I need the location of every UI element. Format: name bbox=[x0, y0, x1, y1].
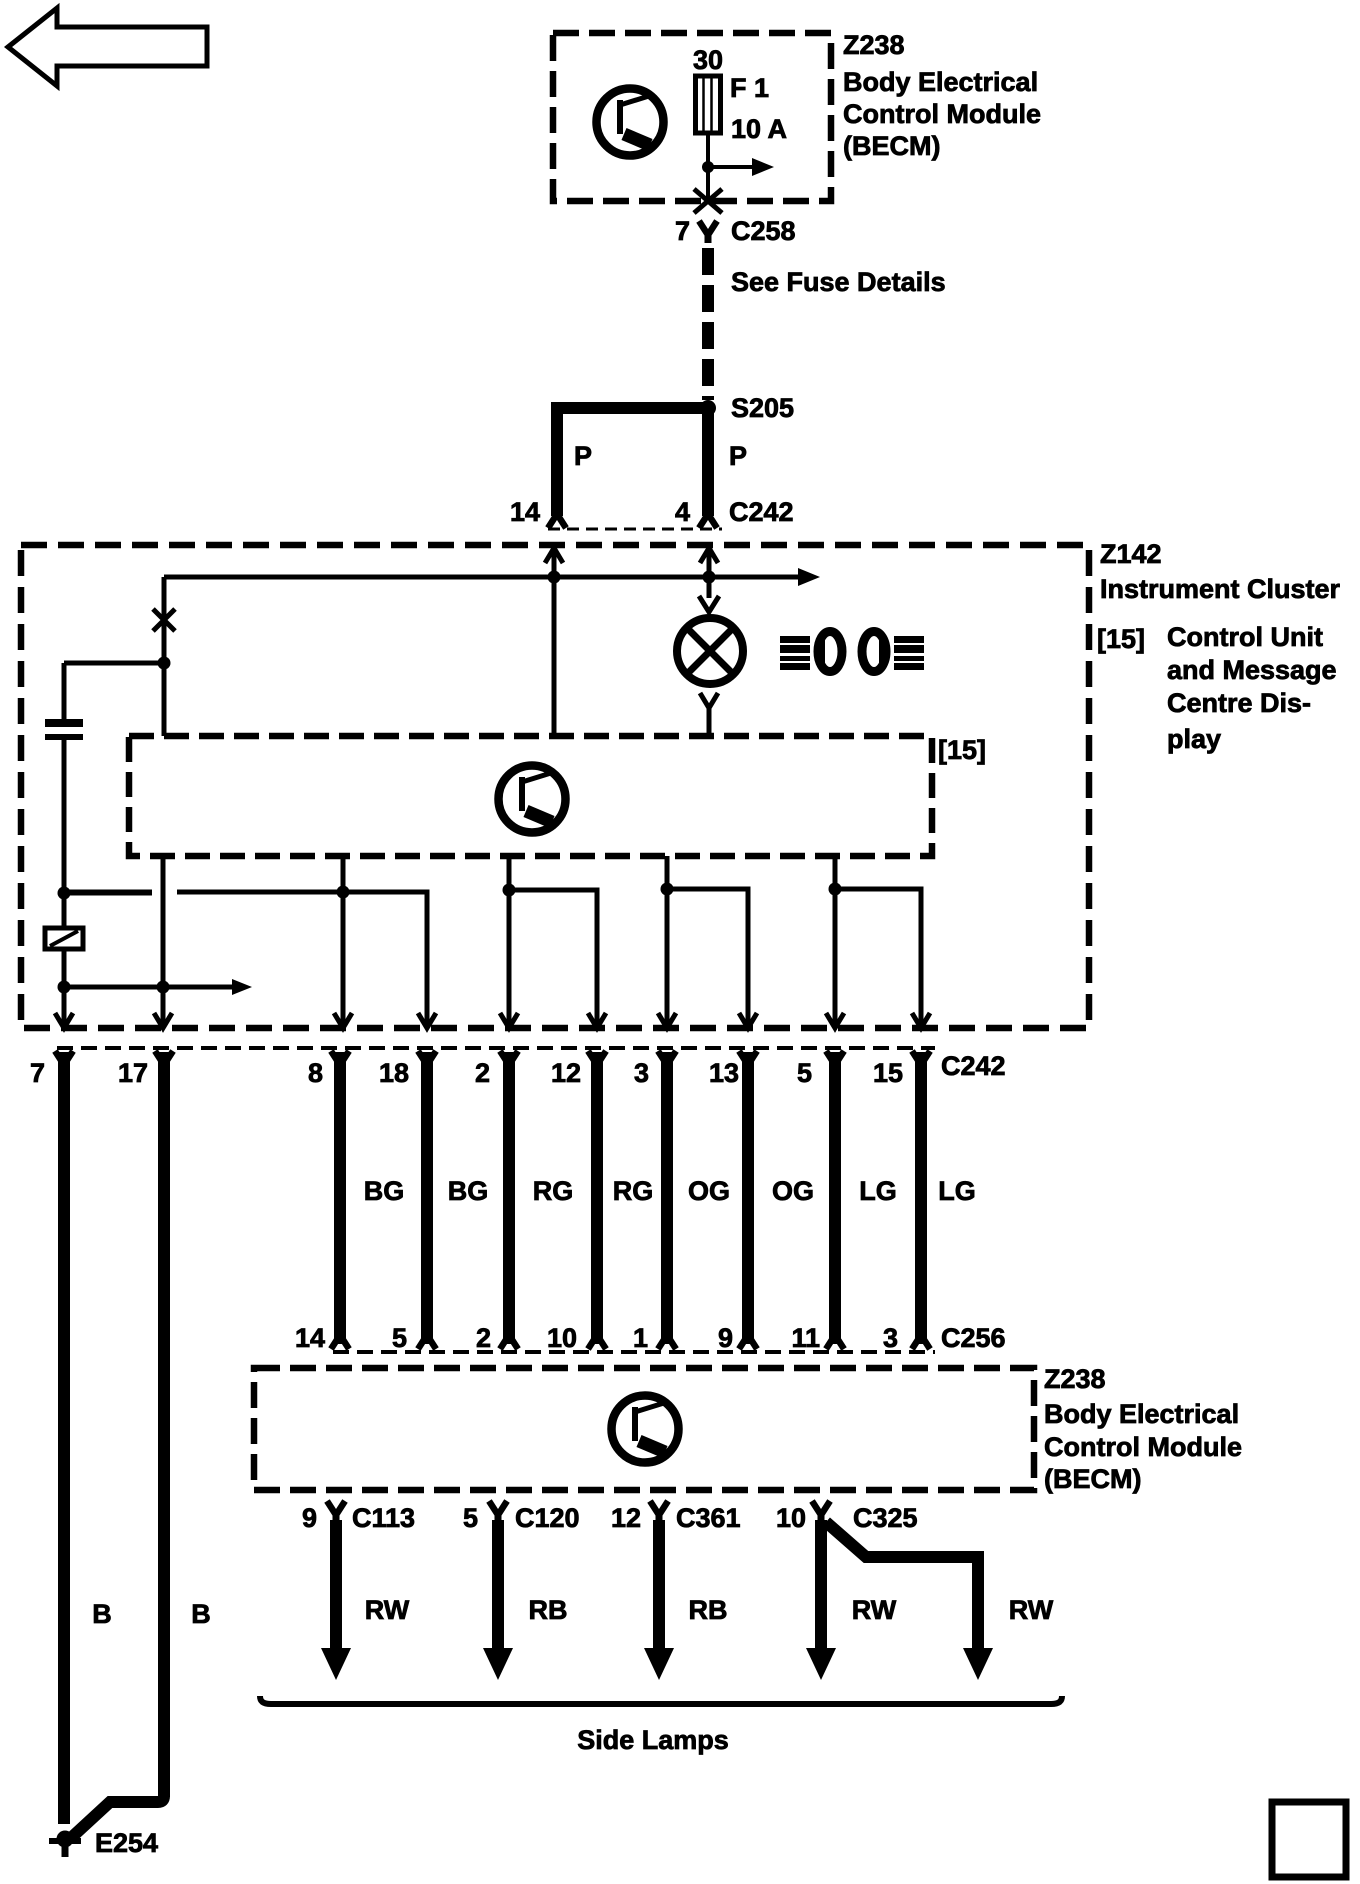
svg-text:Z142: Z142 bbox=[1100, 539, 1162, 569]
svg-text:13: 13 bbox=[709, 1058, 739, 1088]
svg-text:play: play bbox=[1167, 724, 1221, 754]
svg-text:[15]: [15] bbox=[1097, 624, 1145, 654]
svg-text:18: 18 bbox=[379, 1058, 409, 1088]
svg-text:BG: BG bbox=[448, 1176, 489, 1206]
svg-text:(BECM): (BECM) bbox=[1044, 1464, 1141, 1494]
svg-text:C242: C242 bbox=[941, 1051, 1006, 1081]
svg-text:5: 5 bbox=[392, 1323, 407, 1353]
svg-text:B: B bbox=[191, 1599, 211, 1629]
svg-text:17: 17 bbox=[118, 1058, 148, 1088]
svg-text:RG: RG bbox=[533, 1176, 574, 1206]
svg-text:8: 8 bbox=[308, 1058, 323, 1088]
svg-text:5: 5 bbox=[463, 1503, 478, 1533]
svg-text:Control Module: Control Module bbox=[1044, 1432, 1242, 1462]
svg-text:RG: RG bbox=[613, 1176, 654, 1206]
svg-text:12: 12 bbox=[611, 1503, 641, 1533]
svg-text:Z238: Z238 bbox=[843, 30, 905, 60]
svg-text:C361: C361 bbox=[676, 1503, 741, 1533]
svg-text:C242: C242 bbox=[729, 497, 794, 527]
svg-text:10 A: 10 A bbox=[731, 114, 787, 144]
svg-text:RW: RW bbox=[1009, 1595, 1054, 1625]
svg-text:1: 1 bbox=[633, 1323, 648, 1353]
svg-text:and Message: and Message bbox=[1167, 655, 1337, 685]
svg-text:3: 3 bbox=[883, 1323, 898, 1353]
svg-text:RB: RB bbox=[689, 1595, 728, 1625]
svg-text:LG: LG bbox=[938, 1176, 976, 1206]
svg-text:11: 11 bbox=[791, 1323, 820, 1353]
svg-text:LG: LG bbox=[859, 1176, 897, 1206]
svg-text:S205: S205 bbox=[731, 393, 794, 423]
svg-text:10: 10 bbox=[547, 1323, 577, 1353]
svg-text:(BECM): (BECM) bbox=[843, 131, 940, 161]
svg-text:C325: C325 bbox=[853, 1503, 918, 1533]
svg-text:Body Electrical: Body Electrical bbox=[1044, 1399, 1239, 1429]
svg-text:P: P bbox=[729, 441, 747, 471]
svg-text:C113: C113 bbox=[352, 1503, 415, 1533]
svg-text:7: 7 bbox=[675, 216, 690, 246]
svg-text:3: 3 bbox=[634, 1058, 649, 1088]
svg-text:9: 9 bbox=[718, 1323, 733, 1353]
svg-text:B: B bbox=[92, 1599, 112, 1629]
svg-text:Centre Dis-: Centre Dis- bbox=[1167, 688, 1311, 718]
svg-text:Control Module: Control Module bbox=[843, 99, 1041, 129]
svg-text:OG: OG bbox=[688, 1176, 730, 1206]
svg-text:[15]: [15] bbox=[938, 735, 986, 765]
svg-text:F 1: F 1 bbox=[730, 73, 769, 103]
svg-text:C258: C258 bbox=[731, 216, 796, 246]
svg-text:7: 7 bbox=[30, 1058, 45, 1088]
svg-text:See Fuse Details: See Fuse Details bbox=[731, 267, 946, 297]
svg-text:9: 9 bbox=[302, 1503, 317, 1533]
svg-text:Z238: Z238 bbox=[1044, 1364, 1106, 1394]
svg-text:OG: OG bbox=[772, 1176, 814, 1206]
svg-text:15: 15 bbox=[873, 1058, 903, 1088]
svg-text:2: 2 bbox=[475, 1058, 490, 1088]
svg-text:C256: C256 bbox=[941, 1323, 1006, 1353]
svg-text:RW: RW bbox=[365, 1595, 410, 1625]
svg-text:RW: RW bbox=[852, 1595, 897, 1625]
svg-text:Side Lamps: Side Lamps bbox=[577, 1725, 729, 1755]
svg-text:10: 10 bbox=[776, 1503, 806, 1533]
svg-text:14: 14 bbox=[510, 497, 540, 527]
svg-text:P: P bbox=[574, 441, 592, 471]
svg-text:BG: BG bbox=[364, 1176, 405, 1206]
svg-text:E254: E254 bbox=[95, 1828, 158, 1858]
svg-text:Instrument Cluster: Instrument Cluster bbox=[1100, 574, 1341, 604]
svg-text:14: 14 bbox=[295, 1323, 325, 1353]
svg-text:Body Electrical: Body Electrical bbox=[843, 67, 1038, 97]
svg-text:2: 2 bbox=[476, 1323, 491, 1353]
svg-text:5: 5 bbox=[797, 1058, 812, 1088]
svg-text:Control Unit: Control Unit bbox=[1167, 622, 1323, 652]
svg-text:4: 4 bbox=[675, 497, 690, 527]
svg-text:12: 12 bbox=[551, 1058, 581, 1088]
svg-text:RB: RB bbox=[529, 1595, 568, 1625]
svg-text:30: 30 bbox=[693, 45, 723, 75]
svg-text:C120: C120 bbox=[515, 1503, 580, 1533]
